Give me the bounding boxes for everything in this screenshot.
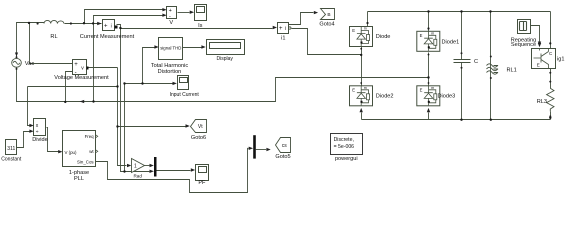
wire: RL1 column <box>490 12 492 120</box>
svg-text:wt: wt <box>89 149 94 154</box>
wire: rail stub up to Diode3 bottom <box>428 113 430 120</box>
wire: rail stub down to Diode1 top <box>428 12 430 32</box>
wire: bus down to mux lower input <box>121 29 150 172</box>
svg-text:Rad: Rad <box>133 174 142 179</box>
svg-text:Vt: Vt <box>198 124 203 130</box>
current measurement i1 <box>273 23 291 42</box>
divide block <box>29 119 47 144</box>
svg-text:m: m <box>364 27 367 31</box>
display block <box>201 40 244 62</box>
svg-text:i1: i1 <box>281 35 285 41</box>
svg-text:Diode3: Diode3 <box>438 94 456 100</box>
repeating sequence block <box>511 20 537 48</box>
bridge leg port dots <box>360 48 429 84</box>
svg-text:-: - <box>169 13 171 19</box>
diode block Diode <box>350 26 373 46</box>
powergui block <box>331 134 363 162</box>
diode block Diode1 <box>417 31 440 51</box>
svg-text:Divide: Divide <box>32 137 48 143</box>
mux A (to PF) <box>150 157 157 177</box>
THD block <box>151 38 189 76</box>
goto tag Vt <box>186 120 207 142</box>
wire: bus down to Vt goto <box>118 84 186 172</box>
wire: right bridge leg connector <box>428 53 430 86</box>
wire: constant to divide input <box>17 132 30 148</box>
svg-text:Total Harmonic: Total Harmonic <box>151 63 189 69</box>
wire: rail down to IGBT collector <box>550 12 552 49</box>
wire: i1 m-output up to Goto4 <box>289 13 314 25</box>
svg-text:Display: Display <box>216 56 233 62</box>
wire: Sin_Cos long route to mux B <box>96 148 249 192</box>
arrows up into Diode2 and Diode3 bottoms <box>360 108 431 112</box>
wire: V sum output to Is scope <box>178 12 190 14</box>
svg-text:i: i <box>111 24 112 30</box>
svg-text:Is: Is <box>198 23 203 29</box>
svg-text:signal THD: signal THD <box>160 46 181 51</box>
wire: mux A output to PF scope <box>157 170 191 172</box>
svg-text:Goto5: Goto5 <box>275 154 290 160</box>
wire: RL line right segment into Current Measurement <box>65 23 102 25</box>
wire: mux B output to Goto5 <box>256 149 266 151</box>
svg-text:Diode: Diode <box>376 34 391 40</box>
wire: rail stub down to Diode top <box>367 12 369 27</box>
wire: THD output to Display <box>183 47 202 49</box>
svg-text:= 5e-006: = 5e-006 <box>334 144 355 150</box>
IGBT block ig1 <box>532 43 565 69</box>
wire: divide output to PLL input <box>47 128 59 152</box>
resistor RL3 <box>547 88 554 111</box>
wire: main line CM output to i1 <box>117 25 273 29</box>
wire: i1 output down to left bridge leg <box>292 29 362 55</box>
wire: branch up to V sum input 1 <box>85 10 163 24</box>
mux B (to Goto5) <box>249 135 256 158</box>
wire: bus down to gain triangle <box>118 68 127 166</box>
svg-text:Diode1: Diode1 <box>442 40 460 46</box>
svg-text:ig1: ig1 <box>557 56 564 62</box>
svg-text:powergui: powergui <box>335 156 358 162</box>
svg-text:Sequence: Sequence <box>511 42 536 48</box>
wire: rail stub up to Diode2 bottom <box>361 113 363 120</box>
svg-text:311: 311 <box>7 146 15 152</box>
svg-text:+: + <box>74 62 78 68</box>
svg-text:V: V <box>169 20 173 26</box>
wire: IGBT emitter down to RL3 <box>550 69 552 120</box>
svg-text:Distortion: Distortion <box>158 69 182 75</box>
wire: VM output to buses <box>89 67 118 69</box>
wire: capacitor column <box>461 12 463 120</box>
1-phase PLL block <box>58 131 98 182</box>
AC voltage source Vac <box>12 58 22 67</box>
svg-text:Vac: Vac <box>25 61 35 67</box>
svg-text:B: B <box>327 12 330 18</box>
svg-text:Current Measurement: Current Measurement <box>80 34 135 40</box>
svg-text:i: i <box>285 26 286 32</box>
scope Input Current <box>170 76 200 99</box>
svg-text:÷: ÷ <box>36 130 39 136</box>
svg-text:1: 1 <box>134 164 137 170</box>
svg-text:RL: RL <box>50 34 57 40</box>
wire: Repeating Sequence output to IGBT gate <box>531 26 540 42</box>
svg-text:Diode2: Diode2 <box>376 94 394 100</box>
svg-text:E: E <box>537 63 540 68</box>
goto tag cs (Goto5) <box>266 138 290 161</box>
wire: branch to Input Current scope <box>125 83 173 85</box>
svg-text:E: E <box>352 28 355 33</box>
gain triangle <box>127 159 154 179</box>
goto tag B (Goto4) <box>314 9 335 28</box>
sum block V <box>162 7 176 27</box>
svg-text:Goto4: Goto4 <box>319 22 334 28</box>
svg-text:Input Current: Input Current <box>170 92 200 98</box>
svg-text:Goto6: Goto6 <box>191 135 206 141</box>
wire: left bridge leg connector <box>361 47 363 86</box>
svg-text:Voltage Measurement: Voltage Measurement <box>54 75 109 81</box>
svg-text:RL1: RL1 <box>507 68 517 74</box>
svg-text:PLL: PLL <box>74 176 84 182</box>
arrow down into IGBT gate <box>538 42 541 46</box>
svg-text:Freq: Freq <box>85 134 95 139</box>
wire: source top to RL line <box>17 23 45 57</box>
wire: branch down to Voltage Measurement plus <box>30 23 73 64</box>
wire: branch up to VM minus <box>66 72 73 102</box>
svg-text:+: + <box>279 26 283 32</box>
capacitor C <box>454 60 471 63</box>
scope Is <box>190 5 207 30</box>
svg-text:Discrete,: Discrete, <box>334 137 354 143</box>
diode block Diode2 <box>350 86 373 106</box>
svg-text:Constant: Constant <box>1 156 22 162</box>
svg-text:PF: PF <box>198 180 206 186</box>
svg-text:RL3: RL3 <box>537 99 547 105</box>
svg-text:Sin_Cos: Sin_Cos <box>77 159 94 164</box>
wire: link up to THD input <box>143 48 155 84</box>
constant block 311 <box>1 140 22 163</box>
current measurement block <box>80 20 135 40</box>
voltage measurement block <box>54 60 109 82</box>
wire: source bottom, lower AC run to right bridge leg <box>17 68 429 102</box>
wire: bottom DC rail <box>362 119 551 121</box>
scope PF <box>191 165 209 187</box>
inductor RL1 <box>487 64 499 74</box>
wire: branch up to V sum input 2 <box>94 16 163 102</box>
wire: top DC rail <box>368 11 551 13</box>
arrow on lower AC line <box>80 100 85 103</box>
svg-text:+: + <box>104 23 108 29</box>
svg-text:C: C <box>474 59 478 65</box>
wire: voltage tap line to divide x input <box>28 87 118 126</box>
svg-text:V (pu): V (pu) <box>65 150 77 155</box>
diode block Diode3 <box>417 86 440 106</box>
inductor RL <box>44 20 64 23</box>
svg-text:cs: cs <box>282 143 288 149</box>
